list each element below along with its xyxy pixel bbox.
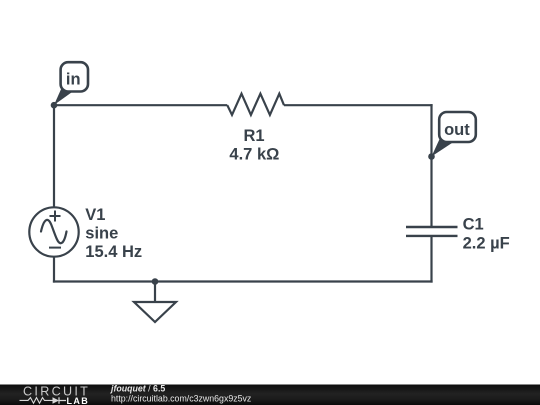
V1 circle body <box>29 207 78 256</box>
svg-text:15.4 Hz: 15.4 Hz <box>85 243 142 261</box>
node in <box>51 62 88 108</box>
logo diode bar and wire <box>59 397 66 403</box>
node dot out <box>428 153 435 160</box>
node dot in <box>51 102 58 109</box>
junction dot <box>152 278 159 285</box>
svg-text:out: out <box>444 121 470 139</box>
svg-text:http://circuitlab.com/c3zwn6gx: http://circuitlab.com/c3zwn6gx9z5vz <box>111 394 251 404</box>
wire top rail right of R1 <box>284 104 433 106</box>
wire bottom rail <box>53 280 433 282</box>
out callout tail <box>432 137 456 157</box>
C1 bottom plate <box>406 235 458 237</box>
ground stub wire <box>154 282 156 303</box>
svg-text:2.2 µF: 2.2 µF <box>463 234 510 252</box>
wire left rail <box>53 104 55 207</box>
CircuitLab logo <box>20 385 91 405</box>
logo resistor zigzag <box>20 398 53 404</box>
out callout box <box>439 112 476 142</box>
node out <box>428 112 476 160</box>
svg-text:LAB: LAB <box>67 396 90 405</box>
in callout box <box>61 62 88 91</box>
footer credit text <box>110 384 251 404</box>
logo diode triangle <box>53 397 60 403</box>
V1 sine waveform glyph <box>41 220 67 243</box>
C1 top plate <box>406 226 458 228</box>
voltage source V1 <box>29 206 142 261</box>
svg-text:C1: C1 <box>463 216 484 234</box>
svg-text:4.7 kΩ: 4.7 kΩ <box>229 146 279 164</box>
V1 plus sign <box>50 211 61 222</box>
resistor R1 <box>227 94 284 164</box>
capacitor C1 <box>406 216 510 253</box>
R1 zigzag body <box>227 94 284 115</box>
wire right rail upper <box>430 104 432 227</box>
footer bar <box>0 385 540 405</box>
svg-text:R1: R1 <box>243 127 264 145</box>
V1 minus sign <box>49 247 61 249</box>
wire top rail <box>53 104 227 106</box>
svg-text:sine: sine <box>85 225 118 243</box>
ground triangle <box>134 302 176 322</box>
svg-text:jfouquet / 6.5: jfouquet / 6.5 <box>110 384 165 394</box>
wire source bottom stub <box>53 257 55 283</box>
svg-text:V1: V1 <box>85 206 105 224</box>
wire right rail lower <box>430 236 432 283</box>
ground <box>134 282 176 323</box>
svg-text:in: in <box>66 71 81 89</box>
in callout tail <box>54 87 74 105</box>
